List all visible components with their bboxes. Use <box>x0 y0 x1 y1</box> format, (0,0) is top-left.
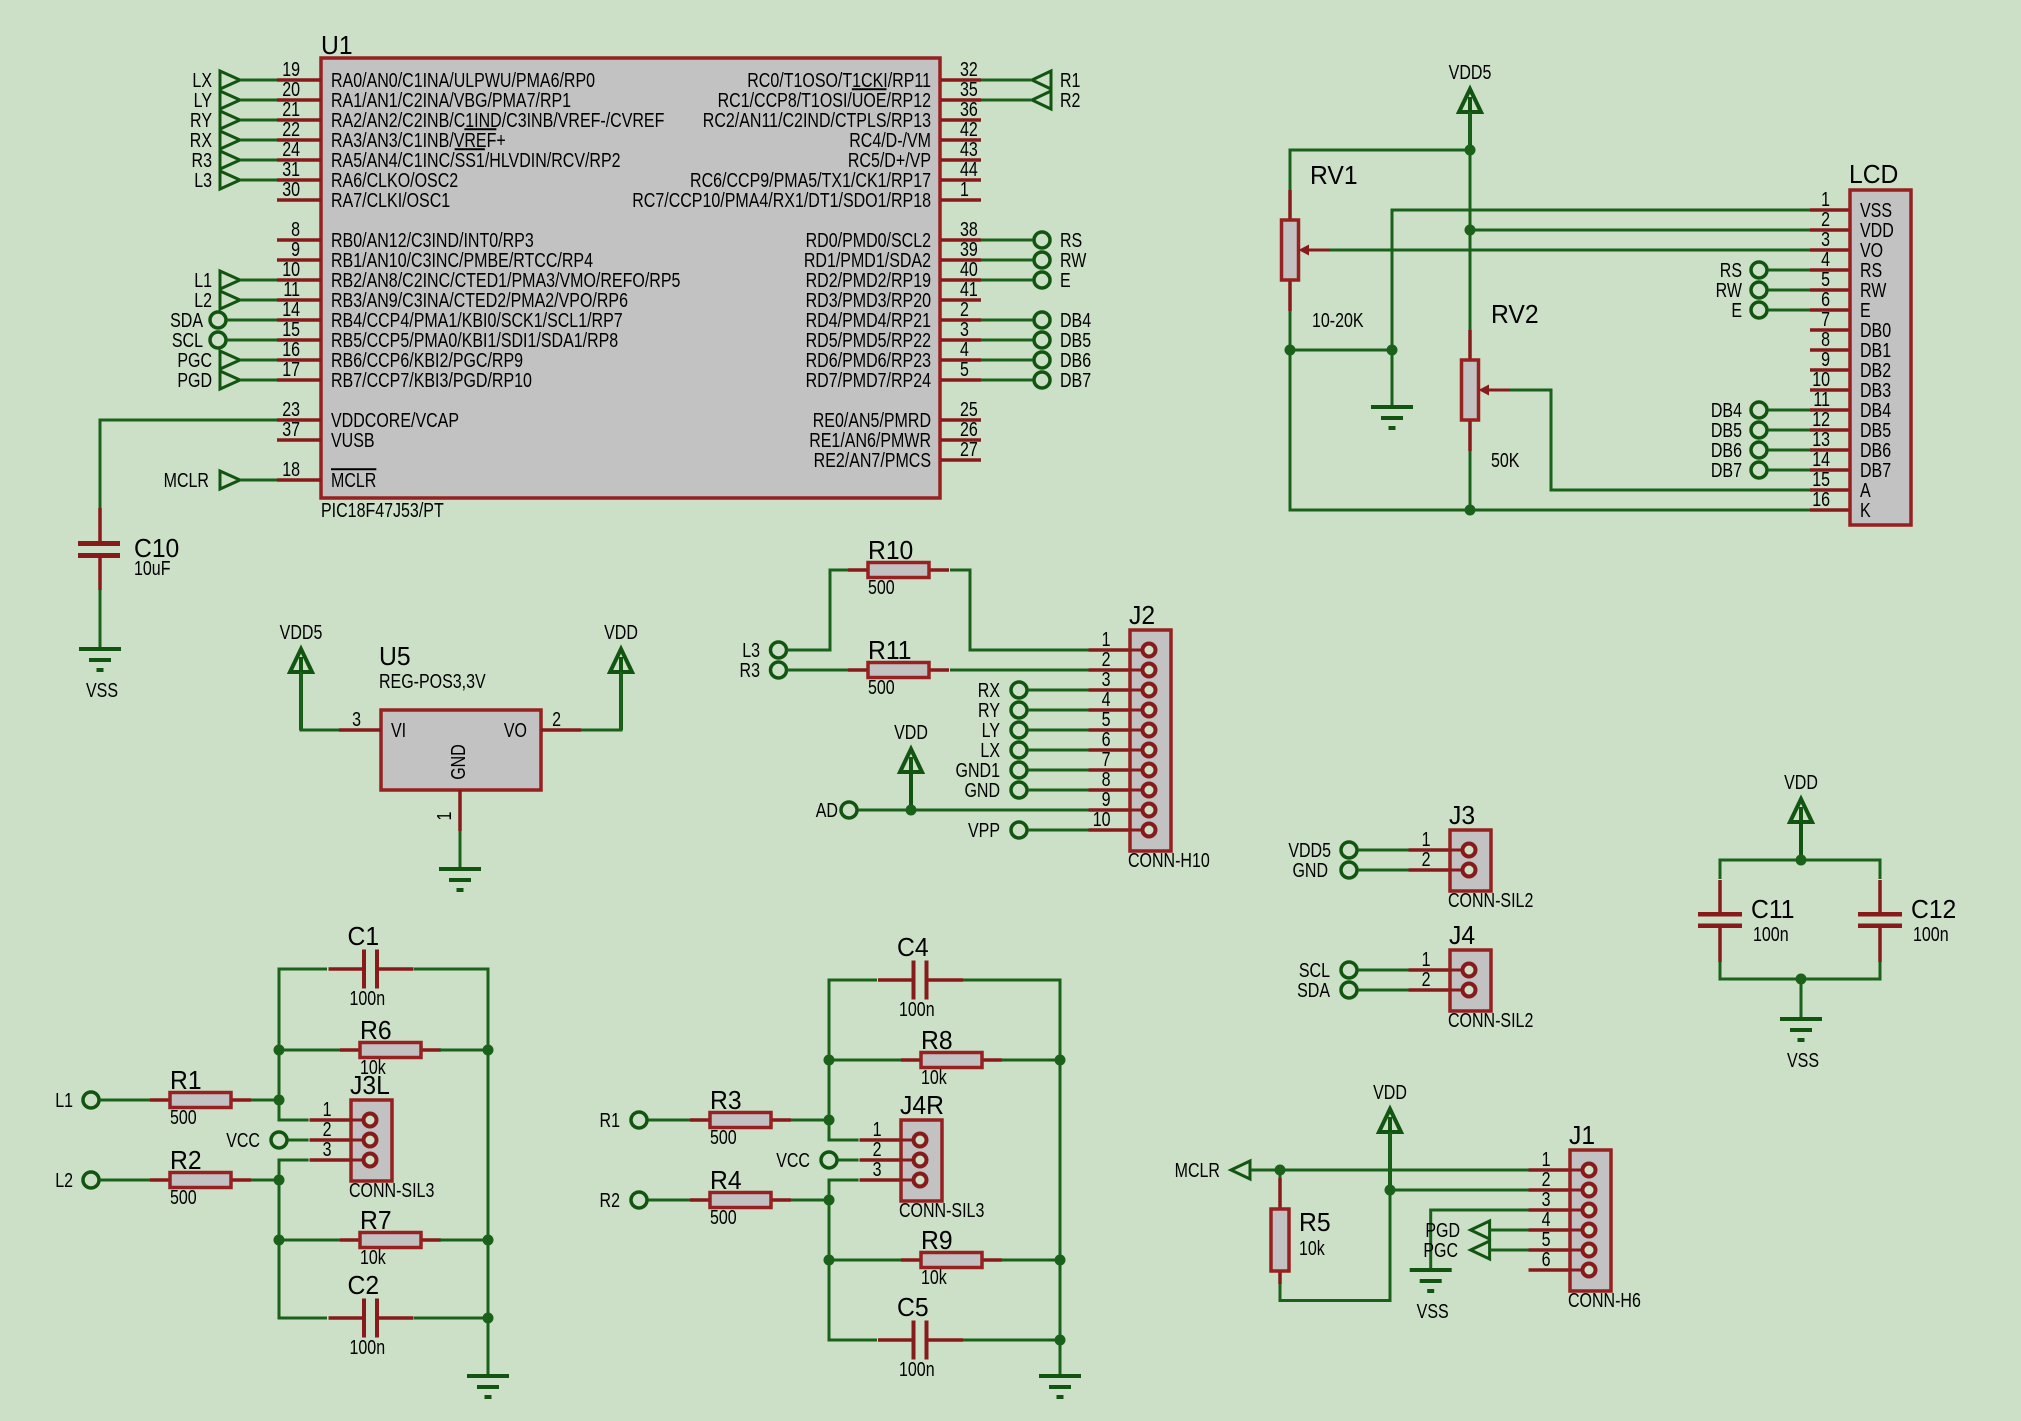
wire R5 bottom to VDD <box>1280 1132 1390 1301</box>
wire VDD to LCD pin2 <box>1470 229 1810 232</box>
svg-text:10-20K: 10-20K <box>1312 309 1364 331</box>
svg-text:36: 36 <box>960 98 978 120</box>
svg-text:10k: 10k <box>360 1246 387 1268</box>
U1 pin 4 <box>806 338 981 371</box>
terminal SDA <box>210 312 226 328</box>
junction <box>1055 1255 1066 1266</box>
svg-text:1: 1 <box>1542 1148 1551 1170</box>
wire R9 right <box>1001 1259 1060 1262</box>
svg-text:2: 2 <box>1542 1168 1551 1190</box>
wire DB6 <box>981 359 1033 362</box>
wire RV1 wiper to LCD VO <box>1330 249 1810 252</box>
U1 pin 23 <box>277 398 459 431</box>
svg-text:6: 6 <box>1542 1248 1551 1270</box>
svg-text:2: 2 <box>1102 648 1111 670</box>
svg-text:27: 27 <box>960 438 978 460</box>
svg-text:RA1/AN1/C2INA/VBG/PMA7/RP1: RA1/AN1/C2INA/VBG/PMA7/RP1 <box>331 89 571 111</box>
LCD connector <box>1810 160 1911 525</box>
svg-text:1: 1 <box>1422 828 1431 850</box>
wire SDA to J4 <box>1358 989 1410 992</box>
wire GND1 to J2 <box>1028 769 1090 772</box>
junction <box>1285 345 1296 356</box>
svg-text:1: 1 <box>1821 188 1830 210</box>
wire DB5 <box>981 339 1033 342</box>
svg-text:R11: R11 <box>868 636 911 665</box>
svg-text:500: 500 <box>868 676 895 698</box>
input terminal LY <box>220 91 240 109</box>
junction <box>1055 1055 1066 1066</box>
wire to VSS ground <box>1800 979 1803 1019</box>
wire GND to J2 <box>1028 789 1090 792</box>
terminal VCC at J4R <box>821 1152 837 1168</box>
ground block1 <box>467 1376 509 1397</box>
svg-text:RA5/AN4/C1INC/SS1/HLVDIN/RCV/R: RA5/AN4/C1INC/SS1/HLVDIN/RCV/RP2 <box>331 149 621 171</box>
junction <box>906 805 917 816</box>
svg-text:RB5/CCP5/PMA0/KBI1/SDI1/SDA1/R: RB5/CCP5/PMA0/KBI1/SDI1/SDA1/RP8 <box>331 329 618 351</box>
wire RX <box>240 139 277 142</box>
terminal SCL <box>210 332 226 348</box>
wire U5 VO to VDD <box>581 672 621 730</box>
wire L3 to R10 <box>787 570 848 650</box>
svg-text:16: 16 <box>282 338 300 360</box>
svg-text:CONN-H10: CONN-H10 <box>1128 849 1210 871</box>
svg-text:RC4/D-/VM: RC4/D-/VM <box>849 129 931 151</box>
svg-text:CONN-SIL2: CONN-SIL2 <box>1448 1009 1533 1031</box>
wire R10 to J2 pin1 <box>950 570 1090 650</box>
wire C5 right <box>963 1339 1060 1342</box>
terminal VDD5 at J3 <box>1341 842 1357 858</box>
svg-text:VDD5: VDD5 <box>1449 61 1492 83</box>
U1 pin 27 <box>814 438 981 471</box>
svg-text:8: 8 <box>1102 768 1111 790</box>
connector J3L CONN-SIL3 <box>310 1071 435 1201</box>
svg-text:10k: 10k <box>1299 1237 1326 1259</box>
svg-text:J4R: J4R <box>900 1091 944 1120</box>
wire R11 to J2 pin2 <box>950 669 1090 672</box>
svg-text:RS: RS <box>1860 259 1882 281</box>
wire DB7 <box>981 379 1033 382</box>
svg-text:VDD5: VDD5 <box>1288 839 1331 861</box>
wire left rail bottom block2 <box>829 1180 877 1340</box>
svg-text:VDDCORE/VCAP: VDDCORE/VCAP <box>331 409 459 431</box>
svg-text:RD1/PMD1/SDA2: RD1/PMD1/SDA2 <box>804 249 931 271</box>
junction <box>1275 1165 1286 1176</box>
input terminal RX <box>220 131 240 149</box>
svg-text:2: 2 <box>960 298 969 320</box>
svg-text:CONN-H6: CONN-H6 <box>1568 1289 1641 1311</box>
terminal R1 <box>1032 71 1051 89</box>
wire LX to J2 <box>1028 749 1090 752</box>
ground VSS below C10 <box>79 649 121 701</box>
svg-text:LY: LY <box>194 89 212 111</box>
resistor R6 <box>340 1016 441 1078</box>
svg-text:RD5/PMD5/RP22: RD5/PMD5/RP22 <box>806 329 931 351</box>
svg-text:25: 25 <box>960 398 978 420</box>
terminal VCC at J3L <box>271 1132 287 1148</box>
power VDD at J1 <box>1373 1081 1407 1190</box>
terminal GND1 <box>1011 762 1027 778</box>
U1 pin 41 <box>806 278 981 311</box>
U1 pin 16 <box>277 338 523 371</box>
junction <box>1465 145 1476 156</box>
svg-text:19: 19 <box>282 58 300 80</box>
svg-text:500: 500 <box>710 1126 737 1148</box>
wire R8 right <box>1001 1059 1060 1062</box>
svg-text:RC1/CCP8/T1OSI/UOE/RP12: RC1/CCP8/T1OSI/UOE/RP12 <box>718 89 931 111</box>
svg-text:MCLR: MCLR <box>331 469 376 491</box>
terminal DB7 at LCD <box>1751 462 1767 478</box>
input terminal RY <box>220 111 240 129</box>
svg-text:39: 39 <box>960 238 978 260</box>
wire C2 right <box>414 1317 488 1320</box>
connector J4R CONN-SIL3 <box>860 1091 985 1221</box>
svg-text:C1: C1 <box>348 922 380 951</box>
wire LY <box>240 99 277 102</box>
svg-text:22: 22 <box>282 118 300 140</box>
wire RW to LCD <box>1768 289 1810 292</box>
svg-text:21: 21 <box>282 98 300 120</box>
wire J1 pin3 to VSS <box>1431 1210 1529 1270</box>
svg-text:L2: L2 <box>194 289 212 311</box>
wire VCC to J3L pin2 <box>288 1139 309 1142</box>
U1 pin 18 <box>277 458 376 491</box>
U1 pin 26 <box>809 418 981 451</box>
svg-text:RS: RS <box>1720 259 1742 281</box>
svg-text:3: 3 <box>352 708 361 730</box>
potentiometer RV2 body <box>1462 330 1511 451</box>
svg-text:SDA: SDA <box>170 309 204 331</box>
svg-text:GND1: GND1 <box>956 759 1000 781</box>
svg-text:RB2/AN8/C2INC/CTED1/PMA3/VMO/R: RB2/AN8/C2INC/CTED1/PMA3/VMO/REFO/RP5 <box>331 269 680 291</box>
svg-text:R2: R2 <box>600 1189 620 1211</box>
svg-text:3: 3 <box>1102 668 1111 690</box>
svg-text:PGD: PGD <box>177 369 212 391</box>
wire RV2 wiper to LCD A <box>1510 390 1810 490</box>
terminal VPP <box>1011 822 1027 838</box>
svg-text:RD3/PMD3/RP20: RD3/PMD3/RP20 <box>806 289 931 311</box>
svg-text:10uF: 10uF <box>134 557 170 579</box>
U1 pin 14 <box>277 298 623 331</box>
wire R5 top <box>1279 1170 1282 1178</box>
wire R1 right <box>251 1099 279 1102</box>
svg-text:2: 2 <box>1422 848 1431 870</box>
svg-text:10k: 10k <box>921 1066 948 1088</box>
microcontroller U1 PIC18F47J53/PT <box>321 31 940 521</box>
wire PGC to J1 pin5 <box>1490 1249 1529 1252</box>
ground block2 <box>1039 1376 1081 1397</box>
svg-text:C12: C12 <box>1911 895 1956 924</box>
svg-text:30: 30 <box>282 178 300 200</box>
terminal DB5 <box>1034 332 1050 348</box>
svg-text:14: 14 <box>282 298 300 320</box>
junction <box>274 1045 285 1056</box>
svg-text:RE1/AN6/PMWR: RE1/AN6/PMWR <box>809 429 931 451</box>
svg-text:17: 17 <box>282 358 300 380</box>
svg-text:4: 4 <box>1542 1208 1551 1230</box>
wire left rail top block2 <box>829 980 877 1140</box>
svg-text:RD0/PMD0/SCL2: RD0/PMD0/SCL2 <box>806 229 931 251</box>
svg-text:RV2: RV2 <box>1491 300 1539 329</box>
svg-text:10: 10 <box>1812 368 1830 390</box>
wire PGC <box>240 359 277 362</box>
svg-text:100n: 100n <box>899 1358 935 1380</box>
wire SCL to J4 <box>1358 969 1410 972</box>
svg-text:RB6/CCP6/KBI2/PGC/RP9: RB6/CCP6/KBI2/PGC/RP9 <box>331 349 523 371</box>
input terminal L2 <box>220 291 240 309</box>
svg-text:PIC18F47J53/PT: PIC18F47J53/PT <box>321 499 444 521</box>
svg-text:18: 18 <box>282 458 300 480</box>
terminal SDA at J4 <box>1341 982 1357 998</box>
junction <box>1465 225 1476 236</box>
svg-text:100n: 100n <box>350 987 386 1009</box>
U1 pin 40 <box>806 258 981 291</box>
svg-text:VSS: VSS <box>1417 1300 1449 1322</box>
svg-text:GND: GND <box>447 744 469 780</box>
input terminal L3 <box>220 171 240 189</box>
connector J2 CONN-H10 <box>1089 601 1210 871</box>
svg-text:R4: R4 <box>710 1166 742 1195</box>
svg-text:1: 1 <box>960 178 969 200</box>
svg-text:R9: R9 <box>921 1226 953 1255</box>
svg-text:R1: R1 <box>1060 69 1080 91</box>
junction <box>1796 855 1807 866</box>
capacitor C12 <box>1858 880 1956 962</box>
svg-text:DB6: DB6 <box>1860 439 1891 461</box>
terminal RS at LCD <box>1751 262 1767 278</box>
wire DB6 to LCD <box>1768 449 1810 452</box>
svg-text:VDD: VDD <box>604 621 638 643</box>
wire R2 right <box>251 1179 279 1182</box>
wire AD to J2 pin9 <box>858 809 1090 812</box>
svg-text:E: E <box>1060 269 1071 291</box>
svg-text:1: 1 <box>1422 948 1431 970</box>
svg-text:RE0/AN5/PMRD: RE0/AN5/PMRD <box>813 409 931 431</box>
svg-text:38: 38 <box>960 218 978 240</box>
capacitor C10 <box>78 508 179 590</box>
resistor R7 <box>340 1206 441 1268</box>
svg-text:7: 7 <box>1102 748 1111 770</box>
svg-text:12: 12 <box>1812 408 1830 430</box>
svg-text:L3: L3 <box>742 639 760 661</box>
svg-text:1: 1 <box>433 812 455 821</box>
junction <box>1387 345 1398 356</box>
svg-text:16: 16 <box>1812 488 1830 510</box>
U1 pin 19 <box>277 58 595 91</box>
wire RY to J2 <box>1028 709 1090 712</box>
svg-text:9: 9 <box>1821 348 1830 370</box>
ground VSS at C11 <box>1780 1019 1822 1071</box>
svg-text:R10: R10 <box>868 536 913 565</box>
svg-text:PGD: PGD <box>1425 1219 1460 1241</box>
ground VSS at J1 <box>1410 1270 1452 1322</box>
svg-text:50K: 50K <box>1491 449 1519 471</box>
junction <box>1055 1335 1066 1346</box>
wire R1 to R3 <box>648 1119 690 1122</box>
svg-text:6: 6 <box>1821 288 1830 310</box>
svg-text:VI: VI <box>391 719 406 741</box>
svg-text:VCC: VCC <box>226 1129 260 1151</box>
svg-text:DB6: DB6 <box>1711 439 1742 461</box>
svg-text:VDD: VDD <box>1373 1081 1407 1103</box>
svg-text:32: 32 <box>960 58 978 80</box>
potentiometer RV1 body <box>1282 190 1331 311</box>
power VDD at U5 <box>604 621 638 730</box>
wire SDA <box>227 319 277 322</box>
svg-text:R8: R8 <box>921 1026 953 1055</box>
wire RV2 bottom <box>1469 451 1472 510</box>
svg-text:37: 37 <box>282 418 300 440</box>
svg-text:RW: RW <box>1716 279 1743 301</box>
junction <box>824 1255 835 1266</box>
svg-text:11: 11 <box>1813 388 1830 410</box>
svg-text:E: E <box>1731 299 1742 321</box>
connector J4 CONN-SIL2 <box>1409 921 1534 1031</box>
power VDD5 at U5 <box>280 621 323 730</box>
capacitor C4 <box>878 933 963 1020</box>
svg-text:GND: GND <box>1292 859 1328 881</box>
wire VDD rail C11 C12 <box>1720 860 1880 879</box>
wire E <box>981 279 1033 282</box>
terminal RW <box>1034 252 1050 268</box>
svg-text:1: 1 <box>1102 628 1111 650</box>
svg-text:RS: RS <box>1060 229 1082 251</box>
svg-text:RD2/PMD2/RP19: RD2/PMD2/RP19 <box>806 269 931 291</box>
svg-text:VDD: VDD <box>894 721 928 743</box>
svg-text:RC0/T1OSO/T1CKI/RP11: RC0/T1OSO/T1CKI/RP11 <box>747 69 931 91</box>
svg-text:5: 5 <box>960 358 969 380</box>
svg-text:41: 41 <box>960 278 978 300</box>
capacitor C5 <box>878 1293 963 1380</box>
terminal MCLR <box>220 471 240 489</box>
terminal RY <box>1011 702 1027 718</box>
terminal PGD at J1 <box>1471 1221 1490 1239</box>
terminal DB7 <box>1034 372 1050 388</box>
svg-text:MCLR: MCLR <box>164 469 209 491</box>
svg-text:RA7/CLKI/OSC1: RA7/CLKI/OSC1 <box>331 189 450 211</box>
svg-text:VSS: VSS <box>1860 199 1892 221</box>
svg-text:500: 500 <box>710 1206 737 1228</box>
svg-text:5: 5 <box>1542 1228 1551 1250</box>
U1 pin 1 <box>632 178 981 211</box>
svg-text:CONN-SIL3: CONN-SIL3 <box>899 1199 984 1221</box>
U1 pin 2 <box>806 298 981 331</box>
svg-text:2: 2 <box>873 1138 882 1160</box>
U1 pin 21 <box>277 98 664 131</box>
svg-text:RA3/AN3/C1INB/VREF+: RA3/AN3/C1INB/VREF+ <box>331 129 506 151</box>
svg-text:2: 2 <box>1422 968 1431 990</box>
svg-text:PGC: PGC <box>1423 1239 1458 1261</box>
svg-text:DB5: DB5 <box>1060 329 1091 351</box>
wire L1 to R1 <box>100 1099 150 1102</box>
resistor R11 <box>848 636 949 698</box>
wire VSS rail C11 C12 <box>1720 962 1880 979</box>
svg-text:VSS: VSS <box>1787 1049 1819 1071</box>
capacitor C2 <box>329 1271 414 1358</box>
U1 pin 5 <box>806 358 981 391</box>
wire to LCD K <box>1290 350 1810 510</box>
wire SCL <box>227 339 277 342</box>
wire L2 to R2 <box>100 1179 150 1182</box>
junction <box>1796 974 1807 985</box>
svg-text:CONN-SIL3: CONN-SIL3 <box>349 1179 434 1201</box>
svg-text:J4: J4 <box>1449 921 1475 950</box>
junction <box>483 1313 494 1324</box>
terminal PGC <box>220 351 240 369</box>
svg-text:RX: RX <box>190 129 212 151</box>
wire VCAP net <box>100 420 277 508</box>
input terminal L1 <box>220 271 240 289</box>
wire VPP to J2 pin10 <box>1028 829 1090 832</box>
svg-text:LCD: LCD <box>1849 160 1898 189</box>
svg-text:5: 5 <box>1102 708 1111 730</box>
svg-text:C4: C4 <box>897 933 929 962</box>
svg-text:C2: C2 <box>348 1271 380 1300</box>
wire MCLR to J1 pin1 <box>1251 1169 1529 1172</box>
wire LX <box>240 79 277 82</box>
terminal RS <box>1034 232 1050 248</box>
svg-text:SDA: SDA <box>1297 979 1331 1001</box>
svg-text:SCL: SCL <box>172 329 203 351</box>
wire U5 VI to VDD5 <box>301 672 339 730</box>
wire RS <box>981 239 1033 242</box>
terminal LY <box>1011 722 1027 738</box>
svg-text:10: 10 <box>282 258 300 280</box>
svg-text:L2: L2 <box>55 1169 73 1191</box>
svg-text:8: 8 <box>291 218 300 240</box>
wire VDD5 to J3 <box>1358 849 1410 852</box>
svg-text:100n: 100n <box>1913 923 1949 945</box>
resistor R1 <box>150 1066 251 1128</box>
svg-text:VDD: VDD <box>1784 771 1818 793</box>
terminal R1 at R3 <box>631 1112 647 1128</box>
ground below U5 <box>439 869 481 890</box>
svg-text:RC5/D+/VP: RC5/D+/VP <box>848 149 931 171</box>
junction <box>483 1235 494 1246</box>
wire RV1 bottom <box>1289 311 1292 350</box>
svg-text:1: 1 <box>323 1098 332 1120</box>
power VDD at J2 <box>894 721 928 810</box>
svg-text:E: E <box>1860 299 1871 321</box>
resistor R5 <box>1271 1178 1331 1284</box>
U1 pin 36 <box>703 98 981 131</box>
ground near RV1 <box>1371 407 1413 428</box>
svg-text:VPP: VPP <box>968 819 1000 841</box>
svg-text:100n: 100n <box>350 1336 386 1358</box>
svg-text:100n: 100n <box>1753 923 1789 945</box>
svg-text:R1: R1 <box>600 1109 620 1131</box>
svg-text:C5: C5 <box>897 1293 929 1322</box>
svg-text:L1: L1 <box>194 269 212 291</box>
svg-text:U1: U1 <box>321 31 353 60</box>
wire R6 left <box>279 1049 340 1052</box>
svg-text:DB2: DB2 <box>1860 359 1891 381</box>
svg-text:10: 10 <box>1093 808 1111 830</box>
svg-text:500: 500 <box>868 576 895 598</box>
svg-text:LX: LX <box>192 69 212 91</box>
svg-text:2: 2 <box>552 708 561 730</box>
wire C10 to ground <box>99 590 102 649</box>
svg-text:9: 9 <box>1102 788 1111 810</box>
wire VDD to J1 pin2 <box>1390 1189 1529 1192</box>
capacitor C1 <box>329 922 414 1009</box>
svg-text:RY: RY <box>190 109 212 131</box>
U1 pin 38 <box>806 218 981 251</box>
svg-text:CONN-SIL2: CONN-SIL2 <box>1448 889 1533 911</box>
U1 pin 42 <box>849 118 981 151</box>
svg-text:35: 35 <box>960 78 978 100</box>
junction <box>1385 1185 1396 1196</box>
junction <box>274 1235 285 1246</box>
